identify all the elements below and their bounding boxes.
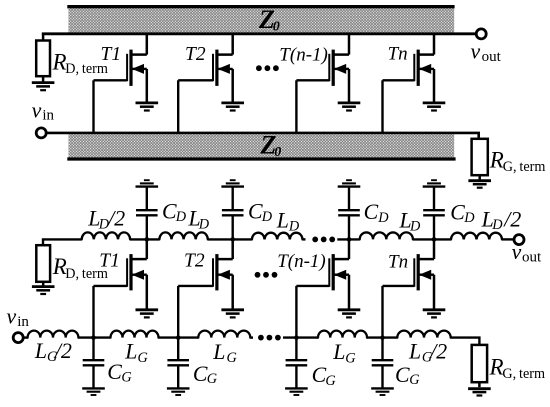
svg-text:/2: /2 [429, 340, 447, 364]
ground (RD,term bottom) [32, 287, 55, 294]
capacitor CD #3 (bottom) [338, 187, 360, 239]
resistor RG,term (bottom) [472, 345, 487, 387]
inductor LD (bottom, 1st) [159, 232, 207, 239]
svg-text:in: in [17, 314, 29, 330]
wire Tn (top) gate riser [381, 80, 383, 133]
ellipsis (gate ladder) [258, 335, 281, 341]
svg-text:G: G [207, 371, 218, 387]
ground (CG #4) [371, 388, 394, 395]
inductor LG #1 [111, 331, 159, 338]
terminal vout (top) [476, 29, 486, 39]
ground (CD #4, inverted) [423, 180, 446, 186]
wire [78, 336, 110, 338]
svg-text:L: L [276, 209, 289, 233]
label LG/2 (left) [34, 339, 72, 365]
svg-text:C: C [162, 199, 177, 223]
svg-text:R: R [489, 354, 504, 379]
inductor LD (bottom, 3rd) [360, 232, 413, 239]
ground (T1 (top) source) [136, 103, 159, 111]
label vout (bottom) [512, 240, 542, 265]
svg-text:G, term: G, term [503, 159, 546, 175]
svg-text:R: R [489, 147, 504, 172]
wire [250, 336, 253, 338]
label RD,term (top) [52, 49, 108, 77]
label CG #3 [312, 363, 337, 389]
label CD #4 [450, 201, 475, 226]
svg-text:D: D [175, 209, 187, 225]
capacitor CG #3 [286, 338, 308, 389]
ground (RD,term top) [32, 83, 55, 91]
svg-text:G: G [409, 372, 420, 388]
svg-text:T1: T1 [101, 44, 122, 65]
label RG,term (top) [489, 147, 546, 175]
transistor T(n-1) (bottom) [296, 239, 349, 309]
svg-text:v: v [7, 304, 17, 328]
transistor Tn (top) [383, 34, 435, 103]
resistor RD,term (bottom) [36, 245, 50, 286]
svg-text:Tn: Tn [388, 44, 408, 65]
ground (Tn (top) source) [423, 103, 446, 111]
wire [24, 336, 27, 338]
label CG #1 [107, 360, 132, 386]
svg-text:L: L [332, 340, 345, 364]
label LG #2 [212, 340, 237, 366]
svg-text:C: C [395, 363, 410, 387]
transmission line Z0 (drain, hatched) [67, 7, 454, 33]
capacitor CG #1 [83, 338, 105, 389]
label LD/2 (right) [481, 207, 522, 233]
node gate #1 [91, 335, 96, 340]
terminal vin (top) [36, 128, 46, 138]
svg-text:D: D [261, 209, 273, 225]
node gate #2 [176, 335, 181, 340]
capacitor CG #2 [167, 338, 189, 389]
svg-text:D: D [491, 217, 503, 233]
svg-text:L: L [34, 339, 47, 363]
svg-text:D: D [409, 218, 421, 234]
label LG #1 [124, 339, 148, 366]
transistor T2 (bottom) [178, 239, 233, 309]
ground (CD #3, inverted) [338, 180, 361, 186]
label CD #3 [364, 200, 390, 226]
ground (T(n-1) (bottom) source) [338, 310, 361, 318]
label CG #4 [395, 363, 420, 388]
svg-text:T2: T2 [185, 44, 206, 65]
ground (RG,term top) [468, 181, 491, 188]
svg-text:T1: T1 [99, 251, 120, 272]
wire T1 (bottom) gate riser [92, 286, 94, 338]
transistor T1 (bottom) [94, 239, 147, 309]
wire [130, 238, 159, 240]
wire T2 (top) gate riser [177, 80, 179, 133]
label Z0 (bottom line) [260, 131, 282, 161]
svg-text:v: v [32, 98, 42, 122]
wire Tn (bottom) gate riser [381, 286, 383, 338]
svg-text:T(n-1): T(n-1) [279, 44, 328, 65]
wire gate ladder right + corner [451, 338, 480, 345]
transistor T(n-1) (top) [296, 34, 349, 103]
capacitor CD #2 (bottom) [222, 187, 244, 239]
transistor Tn (bottom) [383, 239, 435, 309]
label vin (top) [32, 98, 55, 123]
capacitor CD #4 (bottom) [423, 187, 445, 239]
svg-text:/2: /2 [503, 207, 521, 231]
svg-text:T(n-1): T(n-1) [277, 251, 326, 272]
svg-text:L: L [408, 340, 421, 364]
ground (CD #1, inverted) [136, 180, 159, 186]
label RD,term (bottom) [52, 254, 108, 282]
svg-text:G: G [227, 350, 238, 366]
wire [208, 238, 252, 240]
svg-text:v: v [512, 240, 522, 264]
wire gate bus (top circuit) [47, 133, 479, 139]
svg-text:L: L [124, 339, 137, 363]
svg-text:C: C [107, 360, 122, 384]
ground (T2 (bottom) source) [221, 310, 244, 318]
wire drain bus (top circuit) [42, 32, 476, 35]
wire [413, 238, 451, 240]
label LG #3 [332, 340, 356, 366]
svg-text:C: C [248, 199, 263, 223]
svg-text:G: G [345, 350, 356, 366]
wire [502, 238, 513, 240]
wire [367, 336, 397, 338]
node drain #2 [230, 237, 235, 242]
inductor LG/2 (bottom left) [28, 331, 79, 338]
svg-text:/2: /2 [107, 207, 125, 231]
label LG/2 (right) [408, 340, 447, 366]
wire drain ladder left + resistor corner (bottom) [43, 239, 82, 245]
ellipsis (drain ladder) [312, 237, 335, 243]
ground (CD #2, inverted) [221, 180, 244, 186]
wire [283, 336, 318, 338]
svg-text:D: D [377, 210, 389, 226]
svg-text:D: D [463, 210, 475, 226]
inductor LD/2 (bottom right) [451, 233, 502, 240]
wire [303, 238, 306, 240]
ground (T(n-1) (top) source) [338, 103, 361, 111]
svg-text:C: C [364, 200, 379, 224]
svg-text:D: D [198, 217, 210, 233]
transistor T2 (top) [178, 34, 233, 103]
ground (RG,term bottom) [468, 389, 491, 396]
ellipsis (top transistor row) [256, 65, 279, 71]
label CD #2 [248, 199, 273, 225]
svg-text:0: 0 [274, 145, 281, 160]
wire [337, 238, 359, 240]
label LD #2 [276, 209, 300, 235]
wire T(n-1) (top) gate riser [295, 80, 297, 133]
ellipsis (bottom transistor row) [255, 272, 278, 278]
wire [159, 336, 199, 338]
svg-text:G: G [138, 350, 149, 366]
inductor LD (bottom, 2nd) [252, 233, 303, 240]
inductor LG #3 [318, 331, 367, 338]
svg-text:/2: /2 [54, 339, 72, 363]
ground (CG #2) [167, 388, 190, 395]
label Z0 (top line) [258, 5, 280, 34]
svg-text:in: in [42, 108, 54, 124]
label vout (top) [471, 39, 502, 65]
svg-text:Tn: Tn [388, 252, 408, 273]
label vin (bottom) [7, 304, 30, 329]
capacitor CG #4 [372, 338, 394, 389]
svg-text:v: v [471, 39, 481, 63]
label CG #2 [193, 362, 218, 387]
svg-text:T2: T2 [184, 251, 205, 272]
ground (T1 (bottom) source) [136, 310, 159, 318]
label CD #1 [162, 199, 187, 225]
svg-text:D: D [288, 218, 300, 234]
ground (Tn (bottom) source) [423, 310, 446, 318]
capacitor CD #1 (bottom) [136, 187, 158, 239]
label LD #3 [399, 209, 422, 235]
wire T2 (bottom) gate riser [177, 286, 179, 338]
node drain #3 [347, 237, 352, 242]
svg-text:0: 0 [273, 20, 280, 35]
wire T(n-1) (bottom) gate riser [295, 286, 297, 338]
inductor LD/2 (bottom left) [82, 232, 130, 239]
svg-text:C: C [193, 362, 208, 386]
resistor RD,term (top) [36, 34, 50, 83]
svg-text:G: G [325, 373, 336, 389]
label RG,term (bottom) [489, 354, 546, 382]
label LD/2 (left) [87, 207, 125, 233]
transistor T1 (top) [94, 34, 147, 103]
ground (CG #1) [82, 388, 105, 395]
inductor LG #2 [198, 331, 250, 338]
inductor LG/2 (bottom right) [397, 331, 450, 338]
node drain #1 [145, 237, 150, 242]
svg-text:C: C [450, 201, 465, 225]
svg-text:out: out [522, 249, 542, 265]
ground (CG #3) [285, 388, 308, 395]
svg-text:C: C [312, 363, 327, 387]
node drain #4 [432, 237, 437, 242]
terminal vout (bottom) [514, 235, 524, 245]
svg-text:L: L [212, 340, 225, 364]
ground (T2 (top) source) [221, 103, 244, 111]
label LD #1 [188, 207, 210, 233]
node gate #3 [294, 335, 299, 340]
transmission line Z0 (gate, hatched) [67, 134, 455, 159]
terminal vin (bottom) [13, 333, 23, 343]
wire T1 (top) gate riser [92, 80, 94, 133]
node gate #4 [380, 335, 385, 340]
svg-text:R: R [52, 49, 67, 74]
svg-text:G, term: G, term [502, 366, 545, 382]
svg-text:G: G [121, 370, 132, 386]
svg-text:out: out [482, 49, 502, 65]
resistor RG,term (top) [472, 139, 488, 181]
